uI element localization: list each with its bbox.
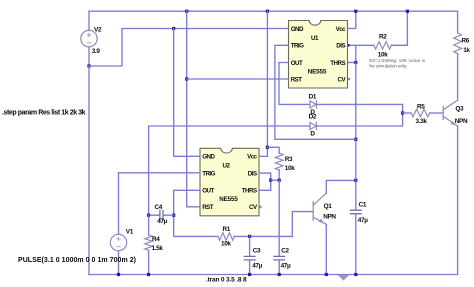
node Q1 collector / C1 xyxy=(354,179,357,182)
svg-text:.tran 0 3.5 .8 8: .tran 0 3.5 .8 8 xyxy=(206,276,247,283)
svg-text:R1: R1 xyxy=(223,226,231,233)
svg-text:Q3: Q3 xyxy=(455,106,464,113)
svg-text:D: D xyxy=(310,130,315,137)
voltage source V2 xyxy=(81,11,102,66)
svg-text:GND: GND xyxy=(291,26,304,33)
node V1 ground xyxy=(117,273,120,276)
wire U1 OUT to diode D1 xyxy=(279,63,310,105)
svg-text:R5: R5 xyxy=(417,104,425,111)
node C4 right plate xyxy=(172,214,175,217)
node C3 ground xyxy=(248,273,251,276)
capacitor C3 xyxy=(244,236,263,274)
node Q1 emitter ground xyxy=(325,273,328,276)
svg-text:OUT: OUT xyxy=(202,188,214,195)
diode D2 xyxy=(309,114,317,138)
svg-text:R2: R2 xyxy=(379,34,387,41)
wire ground net to U1 GND pin xyxy=(89,29,289,67)
node R3 bottom / C2 top xyxy=(278,179,281,182)
op-amp U2 (NE555 timer) xyxy=(200,148,262,216)
transistor Q3 xyxy=(443,100,468,126)
node U1 TRIG feedback tee xyxy=(354,138,357,141)
node GND branch to U2 xyxy=(172,27,175,30)
node U2 Vcc / R3 tee xyxy=(266,146,269,149)
capacitor C2 xyxy=(273,180,291,274)
svg-text:THRS: THRS xyxy=(242,188,257,195)
wire U2 OUT to C4 and R1 xyxy=(174,190,218,236)
wire U1 Vcc to supply rail xyxy=(348,11,356,28)
node supply rail / R2 xyxy=(406,10,409,13)
node C4 left plate xyxy=(147,214,150,217)
resistor R1 xyxy=(218,226,292,248)
svg-text:R4: R4 xyxy=(152,236,160,243)
svg-text:D1: D1 xyxy=(309,94,317,101)
svg-text:1.5k: 1.5k xyxy=(152,245,164,252)
annotation .step directive xyxy=(2,109,86,116)
wire C4 node to diode D2 xyxy=(149,126,310,215)
svg-text:U2: U2 xyxy=(222,163,230,170)
svg-text:DIS: DIS xyxy=(336,43,345,50)
resistor R5 xyxy=(403,104,444,126)
svg-text:NE555: NE555 xyxy=(219,196,238,203)
node supply rail / RST column xyxy=(185,10,188,13)
capacitor C4 xyxy=(149,204,174,225)
node U1 DIS pin xyxy=(347,44,350,47)
node U1 CV pin marker xyxy=(348,78,350,80)
svg-text:V2: V2 xyxy=(94,26,102,33)
svg-text:47µ: 47µ xyxy=(252,262,262,269)
node U1 THRS junction xyxy=(354,61,357,64)
node D1 D2 R5 junction xyxy=(401,111,404,114)
wire U1 TRIG to feedback column xyxy=(275,45,356,139)
svg-text:R6: R6 xyxy=(462,38,470,45)
svg-text:47µ: 47µ xyxy=(358,217,368,224)
wire U1 DIS pin lead xyxy=(348,44,374,46)
wire Q1 collector up to THRS column xyxy=(326,180,356,193)
svg-text:NE555: NE555 xyxy=(308,68,327,75)
capacitor C1 xyxy=(350,180,368,274)
op-amp U1 (NE555 timer) xyxy=(289,21,351,89)
wire U1 THRS pin lead xyxy=(348,62,356,64)
wire Q1 emitter to ground rail xyxy=(325,224,327,274)
wire right column R6 top lead xyxy=(457,11,459,33)
svg-text:1k: 1k xyxy=(463,47,470,54)
node V2 minus xyxy=(87,64,90,67)
wire D2 cathode to R5 node xyxy=(316,113,402,126)
node C2 ground xyxy=(278,273,281,276)
svg-text:for simulation only.: for simulation only. xyxy=(369,63,407,68)
wire R1 to Q1 base xyxy=(292,212,313,237)
wire Q3 emitter to ground rail xyxy=(457,126,459,274)
wire DIS to THRS tie xyxy=(355,45,357,62)
svg-text:C3: C3 xyxy=(253,248,261,255)
svg-text:D2: D2 xyxy=(309,114,317,121)
wire V2 minus down to ground rail xyxy=(88,66,90,275)
node U1 RST branch xyxy=(185,77,188,80)
annotation R2 note xyxy=(369,58,425,68)
node U2 DIS/THRS mid xyxy=(269,179,272,182)
svg-text:TRIG: TRIG xyxy=(202,171,215,178)
svg-text:U1: U1 xyxy=(311,35,319,42)
wire U1 THRS column down to Q1 collector xyxy=(355,63,357,181)
svg-text:10k: 10k xyxy=(221,241,231,248)
svg-text:47µ: 47µ xyxy=(157,218,167,225)
wire supply rail down to U2 RST pin xyxy=(187,11,200,207)
node C1 ground xyxy=(354,273,357,276)
svg-text:TRIG: TRIG xyxy=(291,43,304,50)
svg-text:C2: C2 xyxy=(281,248,289,255)
node R1 / C3 junction xyxy=(248,235,251,238)
svg-text:GND: GND xyxy=(202,154,215,161)
svg-text:C1: C1 xyxy=(359,202,367,209)
svg-text:THRS: THRS xyxy=(330,60,345,67)
ground symbol xyxy=(337,275,349,281)
svg-text:R2=1-50Meg. 10K value is: R2=1-50Meg. 10K value is xyxy=(369,58,425,63)
wire to U1 RST pin xyxy=(187,78,289,80)
svg-text:47µ: 47µ xyxy=(281,262,291,269)
svg-text:C4: C4 xyxy=(155,204,163,211)
resistor R3 xyxy=(267,147,295,180)
svg-text:10k: 10k xyxy=(285,165,295,172)
transistor Q1 xyxy=(313,193,336,224)
svg-text:NPN: NPN xyxy=(323,213,336,220)
annotation .tran directive xyxy=(206,276,247,283)
svg-text:R3: R3 xyxy=(285,156,293,163)
node R4 ground xyxy=(147,273,150,276)
svg-text:Q1: Q1 xyxy=(324,203,333,210)
wire D1 cathode to R5 node xyxy=(316,104,402,113)
svg-text:.step param Res list 1k 2k 3k: .step param Res list 1k 2k 3k xyxy=(2,109,86,116)
svg-text:RST: RST xyxy=(291,76,303,83)
svg-text:3.9: 3.9 xyxy=(92,48,101,55)
svg-text:DIS: DIS xyxy=(248,171,257,178)
wire U2 DIS THRS tie xyxy=(259,173,271,190)
svg-text:3.3k: 3.3k xyxy=(416,118,428,125)
node supply rail / U2 Vcc column xyxy=(266,10,269,13)
svg-text:NPN: NPN xyxy=(455,118,468,125)
resistor R6 xyxy=(454,33,471,54)
wire GND branch down to U2 GND pin xyxy=(174,29,200,157)
resistor R2 xyxy=(374,11,408,58)
node supply rail / U1 Vcc xyxy=(354,10,357,13)
resistor R4 xyxy=(145,215,164,274)
wire tie to R3 C2 column xyxy=(271,179,280,181)
svg-text:Vcc: Vcc xyxy=(336,26,347,33)
wire top supply rail xyxy=(89,10,458,12)
wire R6 to Q3 collector xyxy=(457,54,459,101)
wire supply rail down to U2 Vcc and R3 xyxy=(259,11,267,156)
diode D1 xyxy=(309,94,317,116)
svg-text:RST: RST xyxy=(202,204,214,211)
svg-text:PULSE(3.1 0 1000m 0 0 1m 700m: PULSE(3.1 0 1000m 0 0 1m 700m 2) xyxy=(18,257,136,264)
wire V1 to U2 TRIG pin xyxy=(119,172,201,174)
annotation PULSE source value xyxy=(18,257,136,264)
svg-text:V1: V1 xyxy=(126,229,134,236)
svg-text:OUT: OUT xyxy=(291,60,303,67)
voltage source V1 xyxy=(110,173,133,275)
svg-text:Vcc: Vcc xyxy=(247,154,258,161)
wire bottom ground rail xyxy=(89,274,458,276)
